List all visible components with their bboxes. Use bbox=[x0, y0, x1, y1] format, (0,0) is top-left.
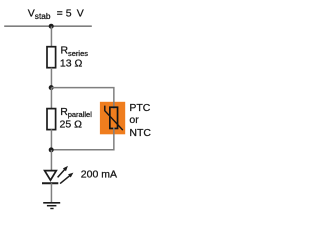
LED D1 cathode bar bbox=[42, 182, 58, 184]
LED D1 triangle bbox=[45, 171, 57, 181]
thermistor RT body bbox=[110, 107, 118, 128]
svg-text:200 mA: 200 mA bbox=[81, 169, 117, 181]
resistor Rparallel bbox=[47, 109, 56, 130]
junction dot node rail/Rseries bbox=[49, 24, 54, 29]
LED light arrow 2 bbox=[60, 175, 70, 183]
wire node C to LED bbox=[50, 150, 52, 170]
wire node B to Rparallel bbox=[50, 88, 52, 109]
wire Rseries to node B bbox=[50, 68, 52, 88]
svg-text:PTCorNTC: PTCorNTC bbox=[129, 102, 151, 139]
svg-text:Rseries: Rseries bbox=[61, 45, 89, 58]
svg-text:Rparallel: Rparallel bbox=[60, 106, 92, 119]
junction dot node C (bottom of parallel pair) bbox=[49, 147, 54, 152]
svg-text:Vstab=5V: Vstab=5V bbox=[28, 7, 84, 21]
wire Rparallel to node C bbox=[50, 129, 52, 150]
thermistor diagonal stroke bbox=[105, 106, 123, 131]
wire thermistor down and left to node C bbox=[51, 128, 113, 150]
wire rail to Rseries bbox=[50, 26, 52, 47]
ground bar 3 bbox=[50, 208, 53, 210]
svg-text:25 Ω: 25 Ω bbox=[60, 119, 83, 131]
ground bar 1 bbox=[43, 202, 60, 204]
LED light arrow 1 bbox=[58, 169, 66, 177]
junction dot node B (top of parallel pair) bbox=[49, 85, 54, 90]
wire LED to ground bbox=[50, 183, 52, 202]
wire node B to thermistor branch (right, down) bbox=[51, 88, 113, 109]
svg-text:13 Ω: 13 Ω bbox=[60, 57, 83, 69]
orange highlight box around thermistor bbox=[100, 102, 125, 135]
ground bar 2 bbox=[47, 205, 57, 207]
resistor Rseries bbox=[47, 47, 56, 68]
power rail Vstab bbox=[4, 25, 92, 27]
